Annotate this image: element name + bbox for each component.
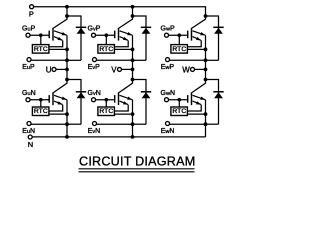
terminal EvN <box>93 122 97 126</box>
svg-text:EwN: EwN <box>161 128 175 135</box>
igbt QuP emitter <box>54 31 67 36</box>
wire diode bottom link DvP <box>133 59 147 61</box>
wire emitter to node QvP <box>132 35 134 49</box>
wire emitter sense EwN <box>170 123 206 125</box>
igbt QvP gate bar <box>114 31 116 39</box>
svg-text:EwP: EwP <box>161 64 175 71</box>
wire RTC input drop QvP <box>105 35 107 44</box>
wire diode bottom link DuN <box>67 123 81 125</box>
svg-text:RTC: RTC <box>99 108 113 115</box>
wire RTC input drop QuP <box>40 35 42 44</box>
wire emitter to node QwN <box>205 100 207 114</box>
igbt QuP gate bar <box>48 31 50 39</box>
wire RTC input drop QwP <box>178 35 180 44</box>
node emitter-RTC QvP <box>131 48 135 52</box>
wire RTC output QuP <box>49 48 67 50</box>
wire node to emitter row QwP <box>205 49 207 60</box>
svg-text:GuP: GuP <box>22 26 36 33</box>
node emitter row QvP <box>131 58 135 62</box>
node emitter-RTC QvN <box>131 112 135 116</box>
wire emitter to N bus v phase <box>132 124 134 137</box>
terminal GwN <box>165 98 169 102</box>
node U output tap <box>65 68 69 72</box>
wire P bus drop U phase <box>66 7 68 16</box>
wire node to emitter row QwN <box>205 114 207 124</box>
node emitter-RTC QwN <box>204 112 208 116</box>
RTC block W-phase high side <box>171 45 188 54</box>
svg-text:RTC: RTC <box>172 108 186 115</box>
igbt QwN sense emitter <box>193 101 201 104</box>
svg-text:GvP: GvP <box>88 26 101 33</box>
wire emitter to node QwP <box>205 35 207 49</box>
node collector QwN junction <box>204 78 208 82</box>
wire emitter sense EuP <box>31 59 67 61</box>
terminal EvP <box>93 58 97 62</box>
svg-text:GwN: GwN <box>161 90 176 97</box>
title underline <box>79 168 195 170</box>
wire gate GuN <box>30 99 49 101</box>
wire RTC input drop QvN <box>105 100 107 107</box>
wire node to emitter row QvP <box>132 49 134 60</box>
node collector QuN junction <box>65 78 69 82</box>
RTC block V-phase low side <box>98 107 115 116</box>
node emitter-RTC QuP <box>65 48 69 52</box>
wire W output <box>195 68 206 70</box>
wire node to emitter row QuN <box>66 114 68 124</box>
igbt QwN emitter <box>193 95 206 100</box>
wire emitter sense EwP <box>170 59 206 61</box>
wire sense emitter to RTC QuP <box>49 40 63 46</box>
igbt QwP sense emitter <box>193 37 201 41</box>
node P bus / U collector <box>65 5 69 9</box>
terminal GvN <box>92 98 96 102</box>
wire RTC output QuN <box>49 113 67 115</box>
terminal EuN <box>27 122 31 126</box>
svg-text:P: P <box>29 10 34 19</box>
node gate-RTC junction QwP <box>178 33 182 37</box>
wire sense emitter to RTC QwP <box>187 40 201 46</box>
RTC block U-phase low side <box>32 107 49 116</box>
igbt QuP body bar <box>52 28 54 41</box>
wire sense emitter to RTC QuN <box>49 105 63 111</box>
node N bus u phase <box>65 135 69 139</box>
node emitter row QvN <box>131 122 135 126</box>
igbt QwP emitter <box>193 31 206 36</box>
igbt QwN body bar <box>191 92 193 105</box>
svg-text:RTC: RTC <box>34 108 48 115</box>
svg-text:EuP: EuP <box>22 64 35 71</box>
node emitter row QwP <box>204 58 208 62</box>
wire gate GvN <box>96 99 115 101</box>
wire RTC output QvN <box>114 113 132 115</box>
igbt QwP body bar <box>191 28 193 41</box>
terminal N <box>28 135 32 139</box>
node collector QvP junction <box>131 14 135 18</box>
igbt QuN body bar <box>52 92 54 105</box>
wire emitter sense EvN <box>97 123 133 125</box>
RTC block U-phase high side <box>32 45 49 54</box>
terminal EwP <box>166 58 170 62</box>
diode DuP <box>67 16 81 60</box>
terminal W <box>191 67 195 71</box>
diode DwP <box>206 16 219 60</box>
terminal GuP <box>26 33 30 37</box>
wire collector lead QvN <box>119 80 133 93</box>
wire collector lead QuN <box>53 80 67 93</box>
terminal EuP <box>27 58 31 62</box>
wire sense emitter to RTC QvP <box>114 40 128 46</box>
wire emitter to node QuP <box>66 35 68 49</box>
terminal V <box>118 67 122 71</box>
wire gate GwP <box>169 34 188 36</box>
node emitter row QwN <box>204 122 208 126</box>
svg-text:GvN: GvN <box>88 90 101 97</box>
node emitter row QuP <box>65 58 69 62</box>
terminal GwP <box>165 33 169 37</box>
wire emitter to node QuN <box>66 100 68 114</box>
wire RTC output QwP <box>187 48 205 50</box>
wire RTC output QvP <box>114 48 132 50</box>
wire node to emitter row QuP <box>66 49 68 60</box>
igbt QwN gate bar <box>187 95 189 103</box>
igbt QvN sense emitter <box>120 101 128 104</box>
diode DvN <box>133 80 147 125</box>
wire N bus <box>32 136 205 138</box>
terminal GuN <box>26 98 30 102</box>
svg-text:U: U <box>46 65 52 74</box>
terminal EwN <box>166 122 170 126</box>
wire P bus <box>34 7 206 16</box>
wire RTC input drop QuN <box>40 100 42 107</box>
igbt QvN gate bar <box>114 95 116 103</box>
svg-text:N: N <box>28 140 33 149</box>
svg-text:RTC: RTC <box>172 46 186 53</box>
svg-text:V: V <box>111 65 117 74</box>
wire U output <box>56 68 67 70</box>
wire emitter to N bus w phase <box>205 124 207 137</box>
wire diode bottom link DwN <box>206 123 219 125</box>
svg-text:EvP: EvP <box>88 64 100 71</box>
node P bus / V collector <box>131 5 135 9</box>
RTC block W-phase low side <box>171 107 188 116</box>
igbt QwP gate bar <box>187 31 189 39</box>
node emitter-RTC QuN <box>65 112 69 116</box>
wire sense emitter to RTC QwN <box>187 105 201 111</box>
svg-text:RTC: RTC <box>34 46 48 53</box>
svg-text:EuN: EuN <box>22 128 35 135</box>
svg-text:CIRCUIT DIAGRAM: CIRCUIT DIAGRAM <box>79 155 195 169</box>
node collector QuP junction <box>65 14 69 18</box>
igbt QvN body bar <box>118 92 120 105</box>
wire V output <box>122 68 133 70</box>
wire phase column W <box>205 60 207 79</box>
svg-text:GuN: GuN <box>22 90 36 97</box>
wire collector lead QwP <box>192 16 206 28</box>
igbt QvP body bar <box>118 28 120 41</box>
wire diode bottom link DvN <box>133 123 147 125</box>
wire emitter to N bus u phase <box>66 124 68 137</box>
node emitter row QuN <box>65 122 69 126</box>
svg-text:RTC: RTC <box>99 46 113 53</box>
wire phase column V <box>132 60 134 79</box>
node gate-RTC junction QvN <box>105 98 109 102</box>
wire collector lead QwN <box>192 80 206 93</box>
igbt QvN emitter <box>120 95 133 100</box>
wire phase column U <box>66 60 68 79</box>
igbt QvP emitter <box>120 31 133 36</box>
wire RTC output QwN <box>187 113 205 115</box>
svg-text:W: W <box>182 65 190 74</box>
node gate-RTC junction QvP <box>105 33 109 37</box>
igbt QuN gate bar <box>48 95 50 103</box>
node collector QvN junction <box>131 78 135 82</box>
node N bus v phase <box>131 135 135 139</box>
node V output tap <box>131 68 135 72</box>
node gate-RTC junction QuN <box>39 98 43 102</box>
node W output tap <box>204 68 208 72</box>
igbt QvP sense emitter <box>120 37 128 41</box>
node gate-RTC junction QwN <box>178 98 182 102</box>
igbt QuN emitter <box>54 95 67 100</box>
diode DwN <box>206 80 219 125</box>
wire sense emitter to RTC QvN <box>114 105 128 111</box>
wire collector lead QvP <box>119 16 133 28</box>
wire P bus drop V phase <box>132 7 134 16</box>
igbt QuN sense emitter <box>54 101 62 104</box>
wire diode bottom link DuP <box>67 59 81 61</box>
node emitter-RTC QwP <box>204 48 208 52</box>
node collector QwP junction <box>204 14 208 18</box>
wire emitter sense EvP <box>97 59 133 61</box>
RTC block V-phase high side <box>98 45 115 54</box>
svg-text:GwP: GwP <box>161 26 176 33</box>
node gate-RTC junction QuP <box>39 33 43 37</box>
terminal U <box>52 67 56 71</box>
diode DvP <box>133 16 147 60</box>
wire emitter sense EuN <box>31 123 67 125</box>
wire gate GvP <box>96 34 115 36</box>
terminal GvP <box>92 33 96 37</box>
wire gate GuP <box>30 34 49 36</box>
terminal P <box>30 5 34 9</box>
wire diode bottom link DwP <box>206 59 219 61</box>
svg-text:EvN: EvN <box>88 128 101 135</box>
wire gate GwN <box>169 99 188 101</box>
wire collector lead QuP <box>53 16 67 28</box>
diode DuN <box>67 80 81 125</box>
wire node to emitter row QvN <box>132 114 134 124</box>
wire RTC input drop QwN <box>178 100 180 107</box>
wire emitter to node QvN <box>132 100 134 114</box>
igbt QuP sense emitter <box>54 37 62 41</box>
